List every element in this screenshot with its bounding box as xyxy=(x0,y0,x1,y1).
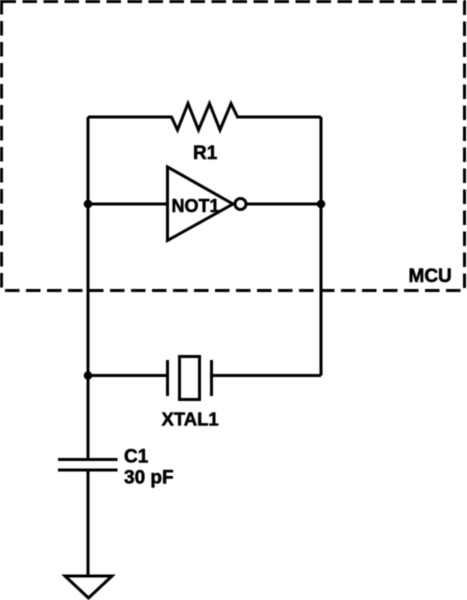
svg-text:NOT1: NOT1 xyxy=(172,196,220,216)
svg-text:30 pF: 30 pF xyxy=(124,468,174,489)
svg-text:XTAL1: XTAL1 xyxy=(162,409,219,430)
svg-text:MCU: MCU xyxy=(409,266,452,287)
svg-text:R1: R1 xyxy=(193,143,218,164)
svg-text:C1: C1 xyxy=(124,447,149,468)
